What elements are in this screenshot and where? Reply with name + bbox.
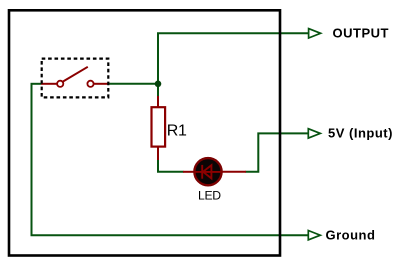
- resistor R1 body: [152, 107, 166, 146]
- wire ground-net left vertical and bottom run: [32, 84, 309, 235]
- wire junction down to resistor: [157, 84, 159, 97]
- svg-text:OUTPUT: OUTPUT: [333, 26, 389, 41]
- wire switch right to junction: [109, 83, 159, 85]
- Ground terminal arrow: [308, 231, 320, 240]
- svg-text:LED: LED: [198, 188, 221, 202]
- wire switch left lead: [31, 83, 42, 85]
- svg-text:Ground: Ground: [326, 227, 376, 242]
- resistor top lead (red): [157, 96, 159, 108]
- wire LED to 5V input: [246, 133, 309, 171]
- LED left lead (red): [183, 171, 196, 173]
- switch throw contact: [87, 81, 93, 87]
- svg-text:R1: R1: [167, 123, 187, 140]
- wire resistor bottom corner to LED: [158, 160, 184, 172]
- svg-text:5V (Input): 5V (Input): [328, 126, 393, 141]
- junction node: [155, 81, 162, 88]
- LED cathode bar: [201, 165, 203, 179]
- resistor bottom lead (red): [157, 147, 159, 161]
- switch terminal lead right (red): [94, 83, 109, 85]
- switch S1 dashed boundary: [42, 59, 109, 98]
- OUTPUT terminal arrow: [309, 29, 321, 38]
- LED right lead (red): [220, 171, 246, 173]
- LED internal lead: [195, 171, 222, 173]
- switch terminal lead left (red): [41, 83, 57, 85]
- circuit enclosure box: [9, 10, 280, 255]
- LED triangle: [203, 165, 211, 178]
- wire junction up to OUTPUT: [158, 33, 309, 84]
- switch lever arm: [63, 67, 88, 82]
- 5V input terminal arrow: [308, 129, 320, 138]
- switch pole contact: [57, 81, 63, 87]
- LED D1 body: [194, 158, 221, 185]
